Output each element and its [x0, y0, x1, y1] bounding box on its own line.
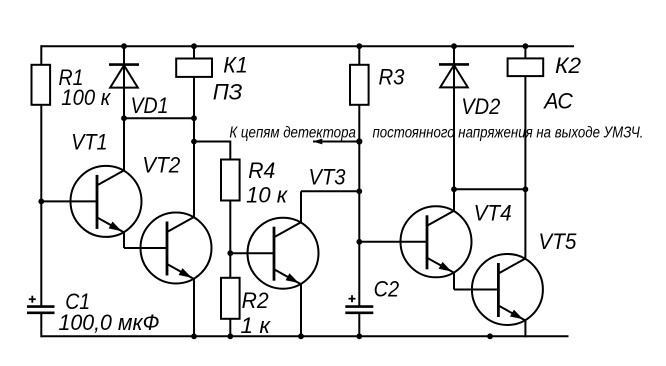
svg-text:ПЗ: ПЗ [213, 80, 243, 105]
svg-text:К1: К1 [223, 53, 248, 78]
svg-text:К2: К2 [555, 53, 581, 78]
svg-text:VT5: VT5 [538, 229, 577, 254]
svg-text:VT3: VT3 [309, 165, 347, 190]
svg-text:С2: С2 [374, 277, 400, 302]
svg-text:10 к: 10 к [246, 183, 289, 208]
svg-text:VT1: VT1 [71, 130, 108, 155]
svg-text:100,0 мкФ: 100,0 мкФ [59, 310, 160, 335]
svg-text:постоянного напряжения на выхо: постоянного напряжения на выходе УМЗЧ. [373, 125, 644, 142]
svg-text:VT4: VT4 [474, 201, 512, 226]
svg-text:VT2: VT2 [142, 153, 180, 178]
svg-text:R3: R3 [379, 65, 406, 90]
svg-text:VD1: VD1 [131, 93, 169, 118]
svg-text:АС: АС [542, 89, 573, 114]
svg-text:К цепям детектора: К цепям детектора [229, 125, 356, 142]
svg-text:100 к: 100 к [61, 85, 111, 110]
svg-text:VD2: VD2 [461, 94, 500, 119]
svg-text:R2: R2 [242, 288, 269, 313]
svg-text:1 к: 1 к [241, 313, 272, 338]
svg-text:R4: R4 [248, 158, 275, 183]
